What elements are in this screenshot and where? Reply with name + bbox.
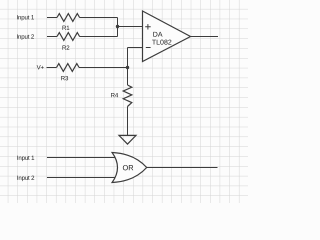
wire R1 to node A [80,17,118,19]
op-amp U1 body [143,11,191,62]
svg-text:R2: R2 [62,45,70,52]
svg-text:Input 2: Input 2 [17,175,35,182]
OR gate DD1 [112,153,147,183]
op-amp - input symbol [146,47,151,49]
wire OR gate output [147,167,218,169]
svg-text:Input 2: Input 2 [16,34,34,41]
svg-text:Input 1: Input 1 [16,14,34,21]
wire vertical inverting input to R4 [127,48,129,86]
wire node A to op-amp noninverting input [118,26,144,28]
wire V+ to R3 [47,67,57,69]
svg-text:R4: R4 [111,92,119,99]
wire Input2 to R2 [47,36,57,38]
wire Input1 to R1 [47,17,57,19]
node B junction dot [126,66,129,69]
svg-text:DA: DA [153,32,163,39]
wire R2 to node A [80,36,118,38]
wire op-amp output [191,36,219,38]
wire R4 to ground [127,107,129,136]
svg-text:R1: R1 [62,25,70,32]
resistor R2 [57,33,80,41]
svg-text:Input 1: Input 1 [17,155,35,162]
svg-text:R3: R3 [61,75,69,82]
wire vertical joining R1 and R2 [117,18,119,37]
op-amp + input symbol [145,24,151,29]
wire Input2 to OR gate [47,177,116,179]
wire R3 to node B [79,67,128,69]
wire Input1 to OR gate [47,157,116,159]
svg-text:V+: V+ [37,64,45,71]
resistor R1 [57,14,80,22]
resistor R4 (vertical) [123,85,132,107]
ground [119,135,136,144]
resistor R3 [57,64,80,72]
svg-text:TL082: TL082 [152,40,172,47]
svg-text:OR: OR [122,163,133,172]
wire op-amp inverting input [128,47,144,49]
node A junction dot [116,25,119,28]
